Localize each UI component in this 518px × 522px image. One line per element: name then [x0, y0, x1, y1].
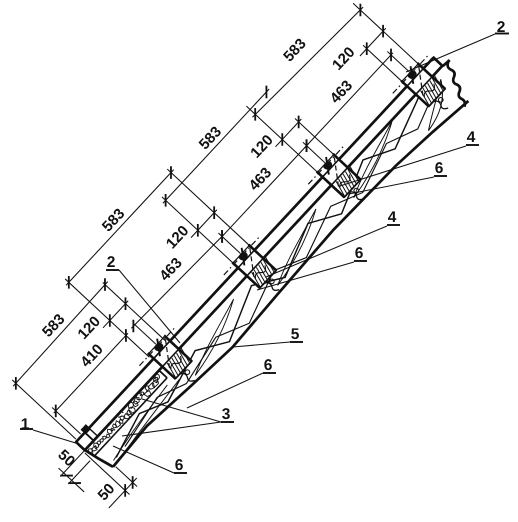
- svg-text:583: 583: [99, 205, 128, 235]
- svg-text:583: 583: [280, 35, 309, 65]
- svg-text:50: 50: [54, 446, 78, 470]
- rail upper edge: [76, 58, 434, 442]
- callout 1 (bar lower end): [20, 416, 79, 444]
- callout 3 (mortar bed): [122, 399, 234, 436]
- svg-text:120: 120: [163, 222, 192, 252]
- extension line x=135: [103, 283, 165, 341]
- mortar strip lower line: [94, 378, 167, 456]
- mortar strip end cut: [159, 370, 167, 377]
- dimension 120 span 362-386: [247, 106, 305, 166]
- dimension 463 span 374-498: [289, 38, 397, 152]
- dimension 50 (end offset): [69, 441, 142, 513]
- svg-text:583: 583: [196, 123, 225, 153]
- svg-text:5: 5: [291, 326, 300, 343]
- rail bottom end cut: [75, 441, 85, 451]
- dimension 463 span 124-250: [116, 217, 228, 335]
- svg-text:6: 6: [264, 357, 273, 374]
- extension line x=238: [162, 197, 235, 265]
- dimension 583 span 2-135: [0, 269, 113, 390]
- mortar pebbles: [85, 373, 164, 457]
- extension line x=126: [134, 324, 156, 344]
- svg-text:583: 583: [39, 311, 68, 341]
- extension line x=374: [303, 142, 325, 162]
- extension line x=9: [52, 407, 81, 434]
- extension line x=262: [167, 169, 251, 247]
- extension line x=250: [218, 233, 240, 253]
- svg-text:120: 120: [329, 44, 358, 74]
- beam top break line: [433, 60, 481, 107]
- clamp holder 2: [220, 232, 298, 310]
- dimension 463 span 250-374: [205, 129, 313, 243]
- extension line x=2: [12, 380, 76, 439]
- svg-text:463: 463: [156, 255, 185, 285]
- dimension 120 span 486-510: [329, 15, 389, 77]
- svg-text:463: 463: [327, 77, 356, 107]
- callout 6 bottom: [113, 446, 187, 474]
- extension line x=510: [353, 3, 420, 66]
- dimension 583 span 112-262: [53, 157, 178, 289]
- rail lower edge: [85, 66, 443, 450]
- beam lower edge: [111, 91, 469, 474]
- callout 2 top (conductor bar): [406, 19, 509, 72]
- callout 4 mid: [266, 209, 400, 277]
- clamp holder 3: [304, 141, 382, 219]
- dimension 120 span 238-262: [163, 197, 221, 257]
- dimension 50 (strip thickness): [48, 439, 105, 496]
- svg-text:2: 2: [107, 254, 116, 271]
- beam top edge stub: [443, 60, 450, 67]
- rail top end cut: [433, 57, 443, 67]
- dimension 583 span 362-510: [235, 0, 366, 125]
- svg-text:1: 1: [21, 416, 30, 433]
- svg-text:6: 6: [355, 245, 364, 262]
- dimension 583 span 238-386: [149, 76, 272, 206]
- svg-text:4: 4: [467, 129, 476, 146]
- svg-text:410: 410: [77, 341, 106, 371]
- beam bottom end cut: [84, 444, 113, 472]
- extension line x=486: [363, 45, 404, 83]
- extension line x=362: [246, 106, 319, 174]
- extension line x=498: [387, 51, 409, 71]
- svg-text:120: 120: [247, 132, 276, 162]
- clamp holder 4: [389, 50, 467, 128]
- callout 6 upper: [349, 160, 447, 194]
- callout 4 upper (holder): [340, 129, 479, 186]
- svg-text:4: 4: [388, 209, 397, 226]
- clamp holder 1: [135, 322, 213, 400]
- svg-text:50: 50: [95, 480, 119, 504]
- callout 5 (beam): [233, 326, 303, 347]
- dimension 120 span 112-135: [74, 288, 131, 347]
- svg-text:463: 463: [246, 164, 275, 194]
- wood grain: [94, 75, 460, 465]
- svg-text:6: 6: [435, 160, 444, 177]
- svg-text:3: 3: [222, 406, 231, 423]
- svg-text:120: 120: [74, 313, 103, 343]
- dimension 410 span 9-112: [38, 319, 132, 417]
- extension line x=386: [295, 119, 336, 157]
- lower bar end mark: [81, 424, 98, 441]
- svg-text:6: 6: [175, 457, 184, 474]
- callout 6 lower-right: [187, 357, 276, 408]
- callout 6 mid: [257, 245, 367, 290]
- extension line x=112: [65, 279, 149, 357]
- callout 2 left (conductor bar): [106, 254, 180, 343]
